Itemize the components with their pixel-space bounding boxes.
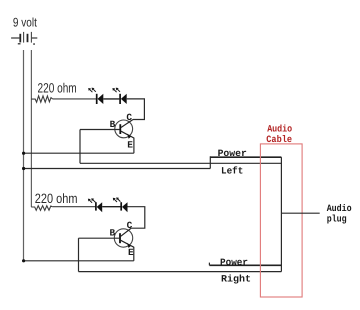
wire D2 to collector corner xyxy=(127,99,145,120)
wire D3 to D4 xyxy=(102,206,121,208)
svg-text:Right: Right xyxy=(221,274,251,285)
svg-text:C: C xyxy=(126,112,132,123)
Q2 collector lead xyxy=(121,228,132,236)
junction dot rail/return (top) xyxy=(22,152,25,155)
Q1 collector lead xyxy=(121,120,133,128)
wire power jog vertical (top) xyxy=(209,156,211,168)
Q2 base wire xyxy=(79,237,120,239)
Q1 base wire xyxy=(80,129,120,131)
svg-text:Cable: Cable xyxy=(266,134,292,145)
Q2 base bar xyxy=(119,233,121,243)
wire rail positive (right) xyxy=(30,50,32,207)
wire rail negative (left) xyxy=(23,50,25,261)
wire Q1 emitter down xyxy=(133,138,135,154)
wire Q2 emitter down xyxy=(133,247,135,261)
svg-text:E: E xyxy=(128,247,134,258)
battery plate thick left xyxy=(19,34,21,43)
LED D2 arrows xyxy=(112,88,120,93)
wire Power line (bottom) xyxy=(209,264,281,266)
svg-text:220 ohm: 220 ohm xyxy=(38,81,77,96)
battery minus mark xyxy=(18,43,21,44)
battery right lead xyxy=(32,37,38,39)
Q1 base bar xyxy=(119,124,121,134)
battery B1 9V xyxy=(11,32,37,43)
battery plate thick right xyxy=(27,34,29,42)
svg-text:Power: Power xyxy=(218,148,247,159)
svg-text:plug: plug xyxy=(327,214,347,225)
svg-text:Power: Power xyxy=(220,257,248,268)
audio cable box xyxy=(260,144,302,297)
svg-text:B: B xyxy=(110,227,116,238)
svg-text:B: B xyxy=(110,119,116,130)
LED D1 arrows xyxy=(88,88,96,93)
wire power feed (top) xyxy=(24,168,211,170)
wire Q1 base loop down xyxy=(79,130,81,164)
wire emitter return (top) xyxy=(24,152,134,154)
svg-text:C: C xyxy=(127,220,133,231)
wire Power line (top) xyxy=(210,156,281,158)
Q1 body circle xyxy=(115,120,133,138)
Q2 body circle xyxy=(114,229,132,247)
resistor R2 220 ohm xyxy=(31,206,52,211)
Q2 emitter lead xyxy=(121,240,134,247)
svg-text:9 volt: 9 volt xyxy=(13,15,37,29)
LED D4 arrows xyxy=(113,197,121,202)
wire D1 to D2 xyxy=(103,98,119,100)
Q1 emitter lead xyxy=(121,131,134,138)
svg-text:220 ohm: 220 ohm xyxy=(35,191,78,206)
svg-text:E: E xyxy=(127,139,133,150)
wire to audio plug xyxy=(281,212,319,214)
wire Q2 base loop down xyxy=(78,238,80,271)
LED D1 xyxy=(97,94,104,104)
battery left lead xyxy=(11,37,19,39)
svg-text:Left: Left xyxy=(221,166,243,177)
battery plus dot xyxy=(33,43,35,45)
wire R1 to D1 xyxy=(53,98,96,100)
wire cable bus vertical xyxy=(280,157,282,271)
junction dot rail/feed (top) xyxy=(22,167,25,170)
wire Right signal line xyxy=(79,271,282,273)
wire R2 to D3 xyxy=(52,206,95,208)
Q2 emitter arrowhead xyxy=(127,243,131,248)
LED D3 xyxy=(96,202,102,212)
wire emitter return (bottom) xyxy=(24,260,134,262)
wire power tick (bottom) xyxy=(208,263,210,266)
transistor Q1 xyxy=(80,120,134,139)
wire D4 to collector corner (bottom) xyxy=(128,207,145,229)
resistor R1 220 ohm xyxy=(31,96,53,102)
Q1 emitter arrowhead xyxy=(127,134,131,139)
wire Left signal line xyxy=(80,162,281,164)
LED D2 xyxy=(120,94,127,104)
battery plate tall right xyxy=(30,32,32,43)
transistor Q2 xyxy=(79,228,134,248)
junction dot rail end (bottom) xyxy=(22,259,25,262)
svg-text:Audio: Audio xyxy=(327,203,352,214)
LED D4 xyxy=(121,202,127,212)
battery plate tall left xyxy=(23,32,25,43)
LED D3 arrows xyxy=(88,198,96,203)
